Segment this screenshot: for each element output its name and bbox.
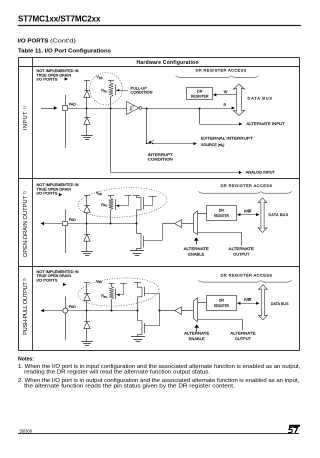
svg-text:RPU: RPU (101, 89, 107, 94)
svg-text:Notes:: Notes: (18, 356, 34, 362)
svg-text:PUSH-PULL OUTPUT 3): PUSH-PULL OUTPUT 3) (22, 278, 29, 335)
svg-text:SOURCE (eix): SOURCE (eix) (201, 143, 224, 148)
svg-text:DR REGISTER ACCESS: DR REGISTER ACCESS (221, 183, 273, 188)
svg-text:DATA BUS: DATA BUS (271, 302, 289, 306)
svg-text:NOT IMPLEMENTED IN: NOT IMPLEMENTED IN (37, 69, 79, 73)
svg-text:OPEN-DRAIN OUTPUT 2): OPEN-DRAIN OUTPUT 2) (22, 191, 29, 257)
svg-text:ALTERNATE INPUT: ALTERNATE INPUT (246, 122, 285, 126)
svg-text:REGISTER: REGISTER (191, 95, 209, 99)
svg-text:TRUE OPEN DRAIN: TRUE OPEN DRAIN (37, 73, 72, 77)
svg-text:RPU: RPU (101, 294, 107, 299)
svg-text:PAD: PAD (69, 102, 76, 106)
svg-text:CONDITION: CONDITION (131, 90, 153, 94)
svg-text:OUTPUT: OUTPUT (235, 336, 252, 341)
svg-text:INTERRUPT: INTERRUPT (148, 153, 174, 157)
svg-text:DR REGISTER ACCESS: DR REGISTER ACCESS (221, 272, 273, 277)
svg-text:DATA BUS: DATA BUS (248, 96, 273, 101)
svg-text:PAD: PAD (69, 305, 76, 309)
svg-text:ST7MC1xx/ST7MC2xx: ST7MC1xx/ST7MC2xx (18, 15, 101, 24)
svg-text:DR: DR (219, 299, 225, 303)
svg-text:56/309: 56/309 (20, 429, 33, 434)
svg-text:DATA BUS: DATA BUS (269, 213, 289, 217)
svg-text:R: R (224, 103, 227, 107)
svg-text:Hardware Configuration: Hardware Configuration (137, 60, 199, 66)
svg-text:I/O PORTS: I/O PORTS (37, 279, 59, 283)
svg-text:Table 11. I/O Port Configurati: Table 11. I/O Port Configurations (18, 49, 112, 55)
svg-text:the alternate function reads t: the alternate function reads the pin sta… (24, 383, 235, 389)
svg-text:EXTERNAL INTERRUPT: EXTERNAL INTERRUPT (201, 136, 254, 140)
svg-text:TRUE OPEN DRAIN: TRUE OPEN DRAIN (37, 187, 72, 191)
svg-text:RPU: RPU (101, 203, 107, 208)
svg-text:INPUT 1): INPUT 1) (22, 106, 29, 130)
svg-text:TRUE OPEN DRAIN: TRUE OPEN DRAIN (37, 274, 72, 278)
svg-text:CONDITION: CONDITION (148, 158, 173, 162)
svg-text:PAD: PAD (69, 218, 76, 222)
svg-text:OUTPUT: OUTPUT (233, 252, 250, 257)
svg-text:DR: DR (219, 209, 225, 213)
svg-text:ALTERNATE: ALTERNATE (184, 331, 210, 336)
svg-text:DR: DR (197, 90, 203, 94)
svg-text:ALTERNATE: ALTERNATE (184, 246, 210, 251)
svg-text:NOT IMPLEMENTED IN: NOT IMPLEMENTED IN (37, 270, 79, 274)
svg-text:ANALOG INPUT: ANALOG INPUT (246, 171, 276, 175)
svg-text:I/O PORTS(Cont'd): I/O PORTS(Cont'd) (18, 38, 76, 44)
svg-text:ALTERNATE: ALTERNATE (230, 331, 256, 336)
svg-text:DR REGISTER ACCESS: DR REGISTER ACCESS (196, 68, 247, 73)
svg-text:ENABLE: ENABLE (189, 336, 205, 341)
svg-text:VDD: VDD (96, 279, 102, 284)
svg-text:REGISTER: REGISTER (214, 214, 229, 218)
svg-text:ENABLE: ENABLE (188, 252, 204, 257)
svg-text:I/O PORTS: I/O PORTS (37, 78, 59, 82)
svg-text:reading the DR register will r: reading the DR register will read the al… (24, 370, 210, 376)
svg-text:NOT IMPLEMENTED IN: NOT IMPLEMENTED IN (37, 183, 79, 187)
svg-text:R/W: R/W (244, 298, 252, 302)
svg-text:ALTERNATE: ALTERNATE (229, 246, 255, 251)
svg-text:W: W (224, 90, 228, 94)
svg-text:REGISTER: REGISTER (214, 304, 229, 308)
svg-text:VDD: VDD (97, 75, 103, 80)
svg-text:R/W: R/W (244, 210, 252, 214)
svg-text:I/O PORTS: I/O PORTS (37, 192, 59, 196)
